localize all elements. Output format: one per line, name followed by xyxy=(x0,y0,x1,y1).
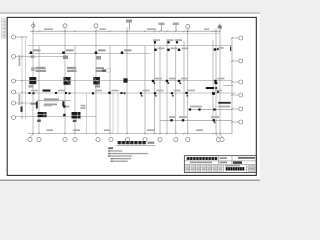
right wing labels y=78 xyxy=(155,78,225,80)
dark beam dash right side xyxy=(206,82,217,89)
staircase area xyxy=(36,101,65,108)
right wing columns y=109.5 xyxy=(189,102,231,111)
right wing columns y=120.3 xyxy=(170,119,215,123)
horizontal axis lines xyxy=(16,46,237,121)
secondary partial verticals xyxy=(87,93,119,134)
field texts right of company xyxy=(190,157,255,164)
column labels row y=50 xyxy=(33,49,132,51)
axis number texts top ticks xyxy=(126,20,179,26)
right wing columns y=81 xyxy=(152,80,218,84)
dimension number texts bottom xyxy=(47,129,204,131)
signature strip table top-left xyxy=(2,18,8,38)
right wing columns y=49.8 xyxy=(154,47,231,52)
title block frame xyxy=(184,156,256,173)
texts below big columns xyxy=(29,85,101,87)
right wing top columns y=42.3 xyxy=(154,41,178,43)
big hatched columns row y=80.5 xyxy=(29,77,127,85)
signature grid texts xyxy=(186,165,223,171)
right wing labels y=106 and 116.5 xyxy=(169,106,230,118)
dimension number texts top xyxy=(44,28,209,30)
two-line label stacks above big columns xyxy=(31,67,104,72)
paper sheet xyxy=(0,13,260,180)
bottom axis bubbles xyxy=(28,138,224,142)
company name bold text xyxy=(187,157,218,160)
right wing labels top xyxy=(153,39,224,49)
right small cells texts xyxy=(248,165,255,171)
grid axis vertical lines xyxy=(33,26,220,134)
labels above wall columns xyxy=(31,103,86,109)
axis bubble leader lines xyxy=(16,37,239,138)
rotated dim texts left xyxy=(19,55,21,105)
dark beam dash row 90 xyxy=(43,90,51,92)
stair small circle and text xyxy=(102,68,111,72)
below-line marks row 56 xyxy=(31,56,102,60)
notes text lines xyxy=(108,147,148,162)
labels row y=90 xyxy=(31,90,222,92)
drawing frame border xyxy=(7,17,256,175)
top axis ticks with small bubble at 33 xyxy=(32,22,220,32)
dimension tick marks xyxy=(21,30,233,134)
background band xyxy=(0,0,260,194)
drawing title bold in block xyxy=(225,165,245,170)
staircase labels xyxy=(44,98,59,105)
plan title text xyxy=(116,141,155,145)
right axis bubbles xyxy=(239,36,243,124)
left axis bubbles xyxy=(12,35,16,120)
columns row y=93 xyxy=(29,91,220,97)
top axis bubbles xyxy=(63,24,222,29)
columns row y=52.7 left wing xyxy=(30,51,124,54)
title block inner lines xyxy=(184,156,256,173)
wall columns bottom left xyxy=(21,105,81,122)
dimension lines xyxy=(28,31,232,134)
